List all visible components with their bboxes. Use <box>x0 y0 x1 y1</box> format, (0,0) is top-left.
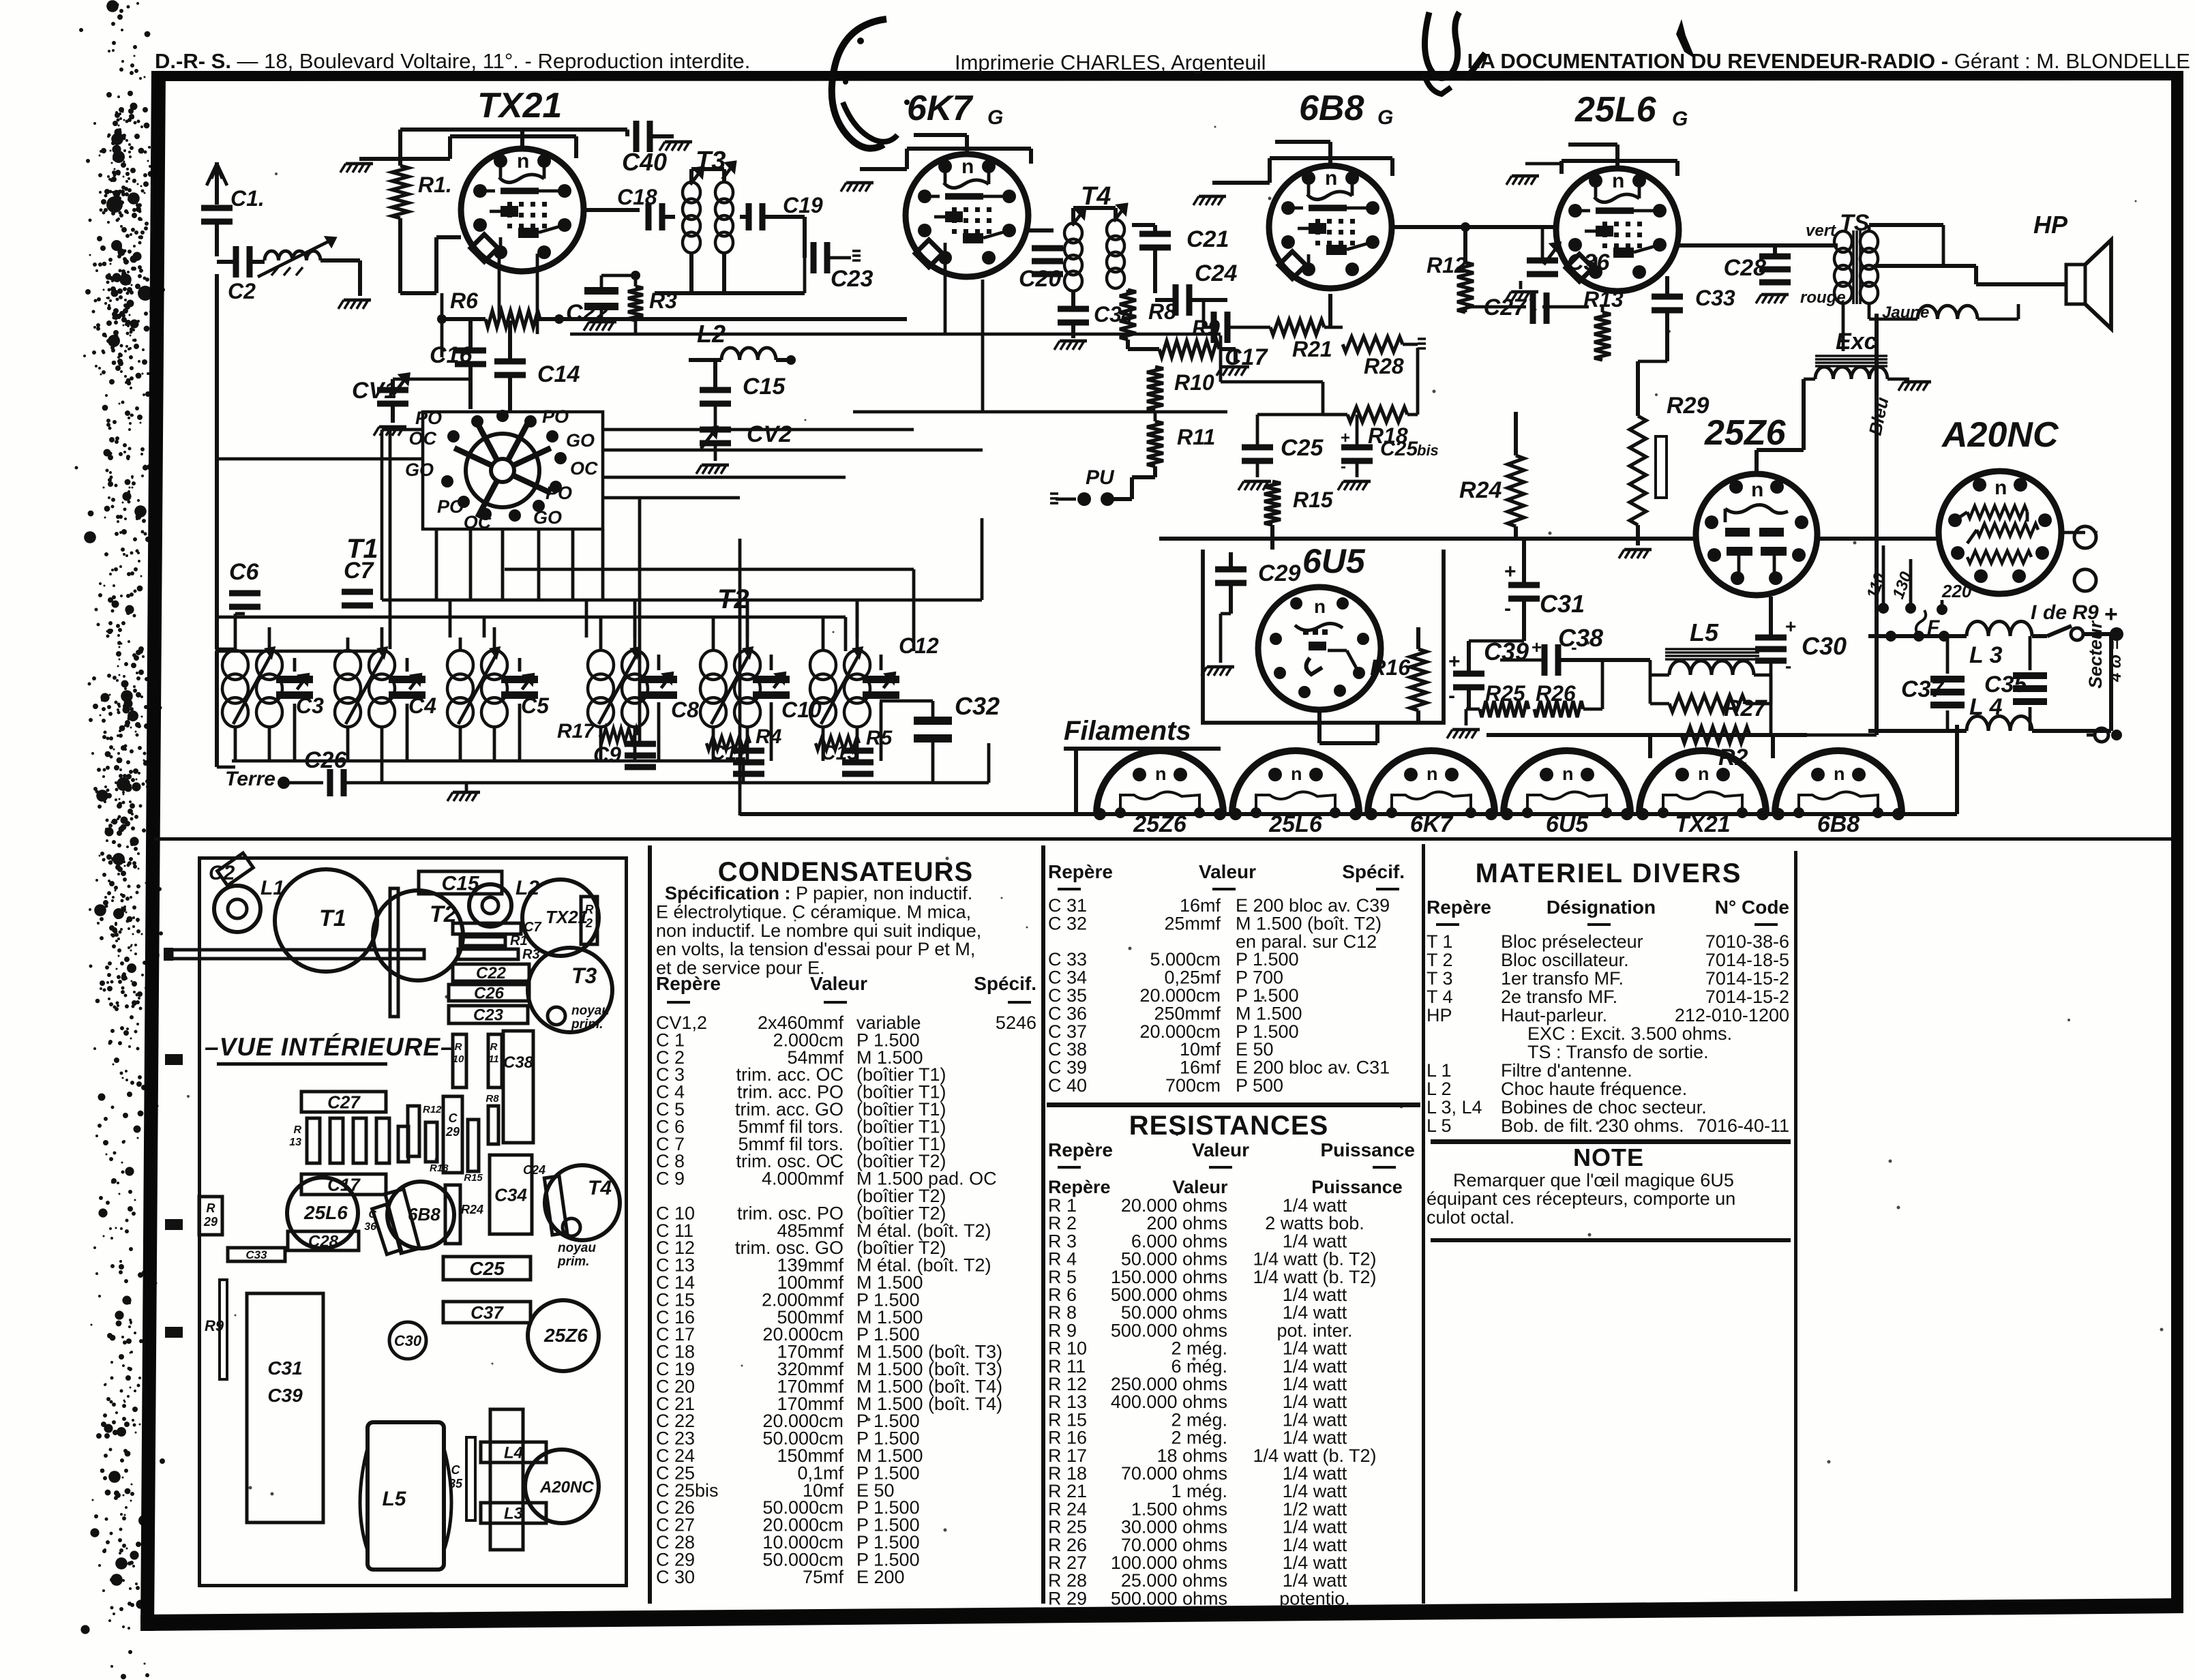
svg-text:R8: R8 <box>1148 299 1176 324</box>
svg-text:C1.: C1. <box>230 186 265 211</box>
svg-text:R10: R10 <box>1174 370 1214 395</box>
svg-text:L4: L4 <box>504 1444 523 1462</box>
svg-text:prim.: prim. <box>557 1255 589 1269</box>
svg-text:non inductif. Le nombre qui su: non inductif. Le nombre qui suit indique… <box>656 920 981 941</box>
svg-text:R12: R12 <box>1427 253 1467 277</box>
svg-text:HP: HP <box>1427 1005 1452 1025</box>
svg-text:T 3: T 3 <box>1427 968 1453 989</box>
svg-text:GO: GO <box>566 430 595 451</box>
svg-text:T3: T3 <box>571 963 597 988</box>
svg-text:C36: C36 <box>1567 250 1610 275</box>
svg-text:+: + <box>1341 429 1350 447</box>
svg-text:en volts, la tension d'essai p: en volts, la tension d'essai pour P et M… <box>656 939 975 959</box>
svg-text:MATERIEL DIVERS: MATERIEL DIVERS <box>1476 858 1742 888</box>
svg-text:-: - <box>1785 655 1791 676</box>
svg-text:R2: R2 <box>1718 745 1748 770</box>
svg-text:C25: C25 <box>469 1258 505 1279</box>
svg-text:Bob. de filt. 230 ohms.: Bob. de filt. 230 ohms. <box>1501 1115 1684 1136</box>
svg-text:13: 13 <box>289 1137 301 1148</box>
svg-text:R24: R24 <box>1459 477 1502 503</box>
svg-text:R: R <box>455 1041 462 1053</box>
svg-text:Spécif.: Spécif. <box>1342 861 1405 882</box>
svg-text:CV2: CV2 <box>747 421 792 447</box>
svg-text:R9: R9 <box>205 1317 224 1334</box>
svg-text:C31: C31 <box>267 1357 302 1379</box>
svg-text:6B8: 6B8 <box>1299 89 1364 128</box>
svg-text:C34: C34 <box>494 1184 527 1205</box>
svg-text:C3: C3 <box>296 693 324 718</box>
svg-text:500.000 ohms: 500.000 ohms <box>1111 1588 1227 1608</box>
svg-text:HP: HP <box>2033 211 2068 239</box>
svg-text:R25: R25 <box>1485 681 1526 706</box>
svg-text:25L6: 25L6 <box>1574 90 1657 130</box>
svg-text:C28: C28 <box>1724 255 1766 281</box>
svg-text:T 1: T 1 <box>1427 931 1453 952</box>
svg-text:Choc haute fréquence.: Choc haute fréquence. <box>1501 1079 1687 1099</box>
svg-text:PU: PU <box>1086 466 1115 489</box>
svg-text:CV1: CV1 <box>352 378 397 404</box>
svg-text:R21: R21 <box>1292 337 1332 361</box>
svg-text:n: n <box>1325 167 1337 190</box>
svg-text:–VUE INTÉRIEURE–: –VUE INTÉRIEURE– <box>205 1033 456 1061</box>
svg-text:C25: C25 <box>1281 435 1324 461</box>
svg-text:équipant ces récepteurs,: équipant ces récepteurs, comporte un <box>1427 1188 1735 1209</box>
svg-text:RESISTANCES: RESISTANCES <box>1129 1111 1329 1141</box>
svg-text:C15: C15 <box>743 374 786 400</box>
svg-text:6U5: 6U5 <box>1302 542 1366 580</box>
svg-text:C28: C28 <box>308 1233 339 1251</box>
svg-text:R11: R11 <box>1177 425 1215 449</box>
svg-text:R29: R29 <box>1667 393 1709 419</box>
svg-text:C27: C27 <box>327 1092 361 1112</box>
svg-text:vert: vert <box>1806 222 1836 240</box>
svg-text:T1: T1 <box>319 905 346 931</box>
svg-text:C13: C13 <box>821 742 858 764</box>
svg-text:C9: C9 <box>593 742 621 767</box>
svg-text:Terre: Terre <box>225 768 275 790</box>
svg-text:C12: C12 <box>899 633 939 658</box>
svg-text:R3: R3 <box>649 288 677 313</box>
svg-text:C19: C19 <box>783 193 823 217</box>
svg-text:GO: GO <box>405 460 434 480</box>
svg-text:prim.: prim. <box>571 1017 603 1032</box>
svg-text:n: n <box>1427 764 1438 784</box>
svg-text:de R9: de R9 <box>2043 601 2099 624</box>
svg-text:Secteur: Secteur <box>2085 620 2106 689</box>
svg-text:-: - <box>1571 637 1577 657</box>
svg-text:R4: R4 <box>756 725 782 748</box>
svg-text:C: C <box>368 1209 376 1220</box>
svg-text:C23: C23 <box>473 1006 504 1025</box>
svg-text:n: n <box>1751 479 1763 501</box>
svg-text:T 2: T 2 <box>1427 950 1453 970</box>
svg-text:C: C <box>451 1463 461 1477</box>
svg-text:L5: L5 <box>1690 618 1719 646</box>
svg-text:11: 11 <box>488 1053 499 1065</box>
svg-text:C30: C30 <box>1802 632 1847 660</box>
svg-text:36: 36 <box>364 1221 376 1233</box>
svg-text:n: n <box>1995 477 2007 499</box>
svg-text:+: + <box>1785 616 1796 637</box>
svg-text:C37: C37 <box>471 1302 504 1323</box>
svg-text:1er transfo MF.: 1er transfo MF. <box>1501 968 1624 989</box>
svg-text:TX21: TX21 <box>477 86 562 125</box>
svg-text:+: + <box>1504 560 1517 583</box>
svg-text:7010-38-6: 7010-38-6 <box>1705 931 1789 952</box>
svg-text:A20NC: A20NC <box>539 1478 594 1497</box>
svg-text:Valeur: Valeur <box>810 973 867 994</box>
svg-text:L 1: L 1 <box>1427 1060 1452 1081</box>
svg-text:L3: L3 <box>504 1505 524 1523</box>
svg-text:C40: C40 <box>622 148 667 176</box>
svg-text:Repère: Repère <box>1427 897 1491 918</box>
svg-text:Désignation: Désignation <box>1547 897 1656 918</box>
svg-text:n: n <box>1562 764 1574 784</box>
svg-text:Bloc oscillateur.: Bloc oscillateur. <box>1501 950 1629 970</box>
svg-text:R12: R12 <box>423 1104 442 1115</box>
svg-text:220: 220 <box>1941 581 1972 601</box>
svg-text:2e transfo MF.: 2e transfo MF. <box>1501 987 1617 1007</box>
svg-text:Repère: Repère <box>656 973 721 994</box>
svg-text:C25: C25 <box>1380 438 1418 460</box>
svg-text:n: n <box>517 150 529 172</box>
svg-text:Imprimerie CHARLES, Argenteuil: Imprimerie CHARLES, Argenteuil <box>955 50 1266 74</box>
svg-text:C26: C26 <box>304 747 347 773</box>
svg-text:R 29: R 29 <box>1048 1588 1087 1608</box>
svg-text:Filaments: Filaments <box>1064 716 1191 746</box>
svg-text:n: n <box>1314 596 1326 617</box>
svg-text:C29: C29 <box>1258 560 1300 586</box>
svg-text:PO: PO <box>437 496 464 517</box>
svg-text:n: n <box>1698 764 1709 784</box>
svg-text:Valeur: Valeur <box>1192 1139 1249 1160</box>
svg-text:R26: R26 <box>1536 681 1576 706</box>
svg-text:E électrolytique. C céramique.: E électrolytique. C céramique. M mica, <box>656 901 971 922</box>
svg-text:25Z6: 25Z6 <box>1704 413 1787 453</box>
svg-text:potentio.: potentio. <box>1279 1588 1350 1608</box>
svg-text:R24: R24 <box>461 1203 483 1216</box>
svg-text:noyau: noyau <box>571 1004 610 1018</box>
svg-text:C14: C14 <box>537 361 580 387</box>
svg-text:7014-18-5: 7014-18-5 <box>1705 950 1789 970</box>
svg-text:6K7: 6K7 <box>907 89 973 128</box>
svg-text:n: n <box>961 155 974 178</box>
svg-text:C37: C37 <box>1901 676 1945 702</box>
svg-text:Spécif.: Spécif. <box>974 973 1036 994</box>
svg-text:n: n <box>1155 764 1167 784</box>
svg-text:R27: R27 <box>1724 695 1767 721</box>
svg-text:25mmf: 25mmf <box>1164 913 1221 933</box>
svg-text:C33: C33 <box>245 1248 267 1261</box>
svg-text:C22: C22 <box>476 964 507 982</box>
svg-text:Bobines de choc secteur.: Bobines de choc secteur. <box>1501 1097 1707 1117</box>
svg-text:rouge: rouge <box>1800 288 1846 307</box>
svg-text:Valeur: Valeur <box>1172 1177 1228 1197</box>
svg-text:Repère: Repère <box>1048 1177 1111 1197</box>
svg-text:noyau: noyau <box>558 1241 596 1255</box>
svg-text:R: R <box>490 1041 498 1053</box>
svg-text:Bloc préselecteur: Bloc préselecteur <box>1501 931 1643 952</box>
svg-text:L 5: L 5 <box>1427 1115 1452 1136</box>
svg-text:R17: R17 <box>557 720 595 742</box>
svg-text:OC: OC <box>570 458 598 479</box>
svg-text:E 200: E 200 <box>856 1567 905 1587</box>
svg-text:R5: R5 <box>866 727 893 749</box>
svg-text:n: n <box>1834 764 1845 784</box>
svg-text:R28: R28 <box>1364 354 1404 378</box>
svg-text:C33: C33 <box>1695 286 1735 310</box>
svg-text:Spécification : P papier, non: Spécification : P papier, non inductif. <box>665 883 972 903</box>
svg-text:C2: C2 <box>228 279 256 303</box>
svg-text:L 3, L4: L 3, L4 <box>1427 1097 1482 1117</box>
svg-text:D.-R- S. — 18, Boulevard Vol: D.-R- S. — 18, Boulevard Voltaire, 11°. … <box>155 49 750 73</box>
svg-text:C 32: C 32 <box>1048 913 1087 933</box>
svg-text:C8: C8 <box>671 697 699 722</box>
svg-text:C10: C10 <box>781 697 822 722</box>
svg-text:R8: R8 <box>486 1093 499 1105</box>
svg-text:R: R <box>207 1201 215 1215</box>
svg-text:Haut-parleur.: Haut-parleur. <box>1501 1005 1607 1025</box>
svg-text:R15: R15 <box>1293 487 1334 512</box>
svg-text:TS : Transfo de sortie.: TS : Transfo de sortie. <box>1527 1042 1709 1062</box>
svg-text:R: R <box>585 903 594 916</box>
svg-text:A20NC: A20NC <box>1941 415 2059 455</box>
svg-text:bis: bis <box>1417 442 1439 459</box>
svg-text:C26: C26 <box>474 985 505 1003</box>
svg-text:212-010-1200: 212-010-1200 <box>1675 1005 1789 1025</box>
svg-text:PO: PO <box>546 483 572 503</box>
svg-text:C32: C32 <box>955 692 1000 720</box>
svg-text:C: C <box>449 1111 458 1125</box>
svg-text:PO: PO <box>542 406 569 427</box>
svg-text:75mf: 75mf <box>803 1567 844 1587</box>
svg-text:EXC : Excit. 3.500 ohms.: EXC : Excit. 3.500 ohms. <box>1527 1023 1732 1044</box>
svg-text:LA DOCUMENTATION DU REVENDE: LA DOCUMENTATION DU REVENDEUR-RADIO - Gé… <box>1467 49 2190 73</box>
svg-text:Repère: Repère <box>1048 1139 1113 1160</box>
svg-text:R16: R16 <box>1370 655 1410 680</box>
svg-text:700cm: 700cm <box>1165 1075 1221 1096</box>
svg-text:n: n <box>1612 170 1624 192</box>
svg-text:35: 35 <box>449 1477 463 1490</box>
svg-text:Puissance: Puissance <box>1320 1139 1415 1160</box>
svg-text:R15: R15 <box>464 1172 483 1184</box>
svg-text:C21: C21 <box>1186 226 1229 252</box>
svg-text:C7: C7 <box>344 558 375 584</box>
svg-text:G: G <box>1377 106 1393 129</box>
svg-text:7014-15-2: 7014-15-2 <box>1705 968 1789 989</box>
svg-text:R: R <box>293 1124 301 1136</box>
svg-text:7016-40-11: 7016-40-11 <box>1697 1115 1789 1136</box>
svg-text:culot octal.: culot octal. <box>1427 1207 1514 1227</box>
svg-text:C23: C23 <box>831 266 873 292</box>
svg-text:C4: C4 <box>408 693 436 718</box>
svg-text:C 40: C 40 <box>1048 1075 1087 1096</box>
svg-text:C24: C24 <box>1195 260 1237 286</box>
svg-text:Valeur: Valeur <box>1199 861 1256 882</box>
svg-text:+: + <box>1532 637 1542 657</box>
svg-text:C5: C5 <box>521 693 550 718</box>
svg-text:C 9: C 9 <box>656 1169 685 1189</box>
svg-text:C24: C24 <box>523 1163 546 1177</box>
svg-text:C2: C2 <box>209 862 235 884</box>
svg-text:n: n <box>1291 764 1302 784</box>
svg-text:L 3: L 3 <box>1969 642 2003 668</box>
svg-text:25L6: 25L6 <box>303 1202 348 1223</box>
svg-text:2: 2 <box>585 916 593 930</box>
svg-text:Filtre d'antenne.: Filtre d'antenne. <box>1501 1060 1632 1081</box>
svg-text:T 4: T 4 <box>1427 987 1453 1007</box>
svg-text:C17: C17 <box>1225 344 1268 370</box>
svg-text:NOTE: NOTE <box>1573 1143 1644 1171</box>
svg-text:C30: C30 <box>394 1332 422 1349</box>
svg-text:Remarquer que l'œil m: Remarquer que l'œil magique 6U5 <box>1453 1170 1734 1190</box>
svg-text:C31: C31 <box>1540 590 1585 618</box>
svg-text:T4: T4 <box>588 1177 612 1199</box>
svg-text:7014-15-2: 7014-15-2 <box>1705 987 1789 1007</box>
svg-text:T2: T2 <box>717 584 749 614</box>
svg-text:C20: C20 <box>1019 266 1061 292</box>
svg-text:Repère: Repère <box>1048 861 1113 882</box>
svg-text:L 2: L 2 <box>1427 1079 1452 1099</box>
svg-text:-: - <box>1341 457 1346 476</box>
svg-text:5246: 5246 <box>996 1012 1036 1033</box>
svg-text:4.000mmf: 4.000mmf <box>762 1169 844 1189</box>
svg-text:+: + <box>1448 650 1461 673</box>
svg-text:N° Code: N° Code <box>1715 897 1789 918</box>
svg-text:P 500: P 500 <box>1236 1075 1283 1096</box>
svg-text:R1.: R1. <box>418 172 452 197</box>
svg-text:Exc: Exc <box>1836 329 1877 355</box>
svg-text:+: + <box>2104 601 2118 627</box>
svg-text:C18: C18 <box>617 185 657 209</box>
svg-text:C 30: C 30 <box>656 1567 695 1587</box>
svg-text:R6: R6 <box>450 288 478 313</box>
svg-text:Puissance: Puissance <box>1311 1177 1403 1197</box>
svg-text:G: G <box>987 106 1003 129</box>
svg-text:29: 29 <box>203 1215 218 1229</box>
svg-text:C6: C6 <box>229 559 260 585</box>
svg-text:G: G <box>1672 108 1688 130</box>
svg-text:-: - <box>1504 597 1511 620</box>
svg-text:C16: C16 <box>430 342 473 368</box>
svg-text:-: - <box>1448 685 1455 707</box>
svg-text:L5: L5 <box>382 1488 406 1510</box>
svg-text:C39: C39 <box>267 1385 303 1406</box>
svg-text:29: 29 <box>445 1125 460 1139</box>
svg-text:I: I <box>2031 601 2037 624</box>
svg-text:25Z6: 25Z6 <box>543 1325 588 1346</box>
svg-text:C38: C38 <box>503 1053 534 1072</box>
svg-text:GO: GO <box>533 507 562 528</box>
svg-text:C38: C38 <box>1558 624 1603 652</box>
